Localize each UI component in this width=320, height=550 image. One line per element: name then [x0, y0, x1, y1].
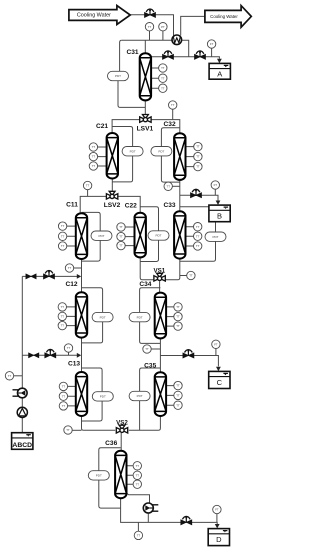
instrument PDT C22: [148, 231, 169, 240]
instrument TT #45: [133, 462, 141, 470]
svg-text:PDT: PDT: [158, 149, 164, 153]
valve tank D line: [181, 516, 192, 524]
wire PDT C36 bottom tap: [99, 480, 121, 508]
instrument TT #15: [164, 182, 172, 190]
feed preheater E3: [13, 388, 28, 398]
wire PDT C33 bottom tap: [180, 241, 216, 261]
instrument TT #49: [134, 531, 142, 539]
svg-text:PDT: PDT: [137, 394, 143, 398]
wire PDT C13 top tap: [82, 368, 103, 391]
instrument TT #9: [89, 152, 97, 160]
wire FT-A stem: [211, 48, 213, 57]
wire FT-B stem: [214, 189, 216, 195]
instrument TT #27: [187, 271, 195, 279]
svg-text:TT: TT: [196, 225, 200, 229]
wire arrow into tank B: [216, 201, 221, 205]
wire TT stem LSV1 line: [172, 109, 174, 119]
wire feed arrow into C13 stem: [77, 353, 81, 358]
svg-text:TT: TT: [61, 324, 65, 328]
wire LSV1 left to C21: [112, 120, 140, 134]
svg-text:TT: TT: [136, 482, 140, 486]
valve distillate 2: [195, 51, 206, 59]
instrument TT #30: [58, 321, 66, 329]
svg-text:C12: C12: [65, 281, 77, 288]
tank D: [208, 529, 229, 546]
wire FT-C stem: [215, 349, 217, 356]
instrument PT #2: [159, 23, 167, 31]
svg-text:TT: TT: [196, 165, 200, 169]
svg-text:C33: C33: [163, 202, 175, 209]
svg-text:TT: TT: [176, 305, 180, 309]
wire C33 bottoms to VS1: [165, 259, 180, 280]
tank C: [209, 371, 230, 388]
wire FT-D stem: [216, 514, 218, 523]
instrument TT #37: [5, 372, 13, 380]
wire C11 bottoms to C12: [81, 259, 83, 293]
column C13: [76, 372, 87, 416]
svg-text:VS2: VS2: [116, 420, 128, 427]
svg-text:PDT: PDT: [100, 315, 106, 319]
tank A: [209, 63, 230, 79]
svg-text:C34: C34: [139, 281, 151, 288]
tank B: [209, 205, 230, 222]
valve VS1: [154, 273, 165, 281]
svg-text:C13: C13: [68, 361, 80, 368]
instrument PDT C12: [92, 312, 113, 321]
wire PDT C12 top tap: [82, 288, 103, 313]
wire TT stem LSV2 line: [87, 190, 89, 197]
wire cooling water inlet: [130, 15, 173, 36]
valve VS2: [116, 425, 127, 433]
column C35: [155, 372, 166, 416]
wire TT stem top: [149, 31, 151, 40]
instrument TT #7: [169, 101, 177, 109]
svg-text:PDT: PDT: [115, 74, 121, 78]
wire LSV2 left to C11: [80, 196, 106, 213]
wire C36 bottoms line: [121, 498, 218, 524]
column C21: [107, 133, 118, 179]
valve LSV1: [140, 115, 151, 123]
svg-text:Cooling Water: Cooling Water: [77, 13, 111, 19]
instrument PDT C34: [129, 312, 150, 321]
svg-text:PDT: PDT: [100, 395, 106, 399]
instrument TT #20: [117, 223, 125, 231]
svg-text:TT: TT: [61, 244, 65, 248]
instrument PDT C32: [151, 147, 172, 156]
svg-text:TT: TT: [119, 244, 123, 248]
column C12: [76, 292, 87, 337]
wire C13 bottoms to VS2: [82, 416, 116, 430]
svg-text:TT: TT: [161, 76, 165, 80]
valve tank C line: [183, 350, 194, 358]
instrument TT #13: [194, 162, 202, 170]
svg-text:ABCD: ABCD: [12, 442, 32, 449]
wire LSV2 right to C22: [118, 196, 141, 213]
svg-text:TT: TT: [166, 184, 170, 188]
valve cooling water: [145, 9, 156, 17]
wire TT leaders C36: [127, 466, 134, 484]
svg-text:FT: FT: [210, 42, 214, 46]
svg-text:TT: TT: [176, 324, 180, 328]
svg-text:Cooling Water: Cooling Water: [210, 14, 238, 19]
instrument FT #3: [207, 40, 215, 48]
instrument TT #43: [174, 401, 182, 409]
svg-text:TT: TT: [119, 235, 123, 239]
wire TT leaders C31: [151, 68, 159, 88]
wire LSV1 right to C32: [151, 120, 180, 134]
wire PDT C34 top tap: [140, 288, 161, 313]
wire C36 to condenser E2: [126, 492, 150, 503]
instrument PDT C36: [88, 471, 109, 480]
wire pump suction from tank ABCD: [21, 418, 23, 433]
wire PDT C22 bottom tap: [140, 240, 158, 262]
column C31: [140, 53, 151, 100]
svg-text:TT: TT: [86, 184, 90, 188]
svg-text:TT: TT: [148, 25, 152, 29]
svg-text:TT: TT: [136, 464, 140, 468]
valve LSV2: [106, 191, 117, 199]
svg-text:TT: TT: [92, 145, 96, 149]
svg-text:C22: C22: [125, 202, 137, 209]
instrument TT #19: [58, 242, 66, 250]
wire condenser E2 outlet: [147, 513, 149, 522]
wire arrow into tank C: [216, 367, 221, 371]
svg-text:TT: TT: [92, 164, 96, 168]
wire VS2 to C36: [120, 433, 122, 451]
instrument TT #39: [59, 392, 67, 400]
wire PDT C31 top tap: [120, 40, 122, 71]
wire PDT C35 bottom tap: [139, 401, 141, 431]
wire TT leaders C13: [68, 386, 76, 406]
instrument PDT C21: [122, 147, 143, 156]
svg-text:PDT: PDT: [99, 234, 105, 238]
svg-text:TT: TT: [92, 155, 96, 159]
wire PT stem top: [162, 31, 164, 40]
wire TT leader C11 bottom: [74, 267, 82, 269]
check valve feed 2: [29, 353, 39, 358]
svg-text:A: A: [217, 69, 222, 78]
instrument TT #44: [64, 426, 72, 434]
check valve feed 1: [26, 274, 36, 279]
wire PDT C21 bottom tap: [112, 156, 132, 182]
instrument TT #5: [159, 74, 167, 82]
svg-text:TT: TT: [196, 244, 200, 248]
svg-text:TT: TT: [68, 266, 72, 270]
instrument TT #23: [194, 223, 202, 231]
svg-text:TT: TT: [176, 315, 180, 319]
wire VS1 to C34: [159, 281, 161, 293]
wire condenser E1 outlet: [182, 40, 189, 57]
svg-text:TT: TT: [137, 534, 141, 538]
instrument TT #41: [174, 381, 182, 389]
svg-text:TT: TT: [62, 404, 66, 408]
wire TT stem bottoms line: [137, 522, 139, 531]
svg-text:TT: TT: [176, 394, 180, 398]
instrument TT #11: [194, 142, 202, 150]
wire TT leaders C33: [186, 227, 194, 246]
svg-text:TT: TT: [171, 103, 175, 107]
wire arrow into tank A: [217, 59, 222, 63]
instrument FT #48: [213, 505, 221, 513]
instrument TT #22: [117, 241, 125, 249]
wire C34 bottoms to C35: [159, 338, 161, 372]
svg-text:C35: C35: [144, 363, 156, 370]
wire TT leaders C12: [67, 307, 76, 326]
wire C34 bottoms to tank C: [160, 356, 218, 367]
wire TT leaders C11: [67, 226, 76, 246]
svg-text:TT: TT: [196, 155, 200, 159]
wire C32 bottoms to tank B: [180, 195, 218, 200]
svg-text:TT: TT: [67, 346, 71, 350]
instrument TT #21: [117, 232, 125, 240]
wire TT leader C13 bottom: [72, 429, 81, 431]
column C34: [155, 293, 166, 339]
instrument TT #42: [174, 391, 182, 399]
instrument TT #25: [194, 242, 202, 250]
svg-text:PDT: PDT: [130, 149, 136, 153]
wire TT leader C34 bottom: [151, 348, 160, 350]
column C36: [115, 451, 126, 498]
column C22: [135, 213, 146, 258]
wire TT leaders C32: [186, 147, 194, 167]
svg-text:FT: FT: [215, 508, 219, 512]
wire C31 overhead to condenser E1: [122, 40, 172, 53]
wire PDT C33 top tap: [180, 207, 216, 232]
svg-text:C11: C11: [66, 202, 78, 209]
wire C32 bottoms to C33: [179, 180, 181, 212]
wire PDT C22 top tap: [140, 207, 158, 231]
instrument TT #18: [58, 232, 66, 240]
valve tank B line: [191, 189, 202, 197]
instrument FT #16: [211, 181, 219, 189]
svg-text:C21: C21: [96, 123, 108, 130]
instrument TT #6: [159, 84, 167, 92]
wire arrow into tank D: [215, 524, 220, 528]
column C33: [174, 211, 185, 258]
instrument TT #4: [159, 64, 167, 72]
instrument TT #12: [194, 152, 202, 160]
instrument TT #14: [83, 181, 91, 189]
svg-text:PDT: PDT: [156, 234, 162, 238]
tank ABCD: [12, 433, 33, 450]
instrument TT #47: [133, 480, 141, 488]
svg-text:TT: TT: [61, 305, 65, 309]
svg-text:TT: TT: [145, 347, 149, 351]
svg-text:TT: TT: [161, 86, 165, 90]
wire PDT C12 bottom tap: [82, 322, 103, 343]
wire feed line 1: [22, 275, 77, 277]
wire TT leaders C35: [166, 386, 174, 406]
svg-text:TT: TT: [61, 224, 65, 228]
instrument TT #32: [174, 312, 182, 320]
wire TT leaders C34: [166, 307, 174, 326]
instrument TT #35: [143, 345, 151, 353]
svg-text:C: C: [217, 378, 223, 387]
product cooler E2: [143, 503, 158, 513]
wire C12 bottoms to C13: [81, 338, 83, 373]
instrument TT #33: [174, 322, 182, 330]
instrument TT #40: [59, 402, 67, 410]
feed pump P1: [17, 407, 27, 417]
svg-text:TT: TT: [161, 66, 165, 70]
wire TT leader C32 bottom: [172, 185, 179, 187]
flag cooling water out: [205, 6, 251, 28]
wire feed arrow into C12 stem: [77, 274, 81, 279]
svg-text:PDT: PDT: [137, 315, 143, 319]
wire TT leaders C22: [125, 227, 134, 246]
wire PDT C32 bottom tap: [161, 156, 179, 182]
wire C22 bottoms to VS1: [140, 257, 154, 279]
svg-text:C36: C36: [105, 440, 117, 447]
instrument TT #31: [174, 303, 182, 311]
column C11: [76, 213, 87, 259]
wire TT stem feed line 2: [68, 352, 70, 355]
svg-text:TT: TT: [62, 385, 66, 389]
wire TT leaders C21: [98, 147, 107, 166]
svg-text:TT: TT: [62, 394, 66, 398]
svg-text:FT: FT: [214, 342, 218, 346]
wire C31 bottoms to LSV1: [144, 100, 146, 114]
wire PDT C11 bottom tap: [82, 240, 101, 261]
svg-text:TT: TT: [61, 234, 65, 238]
condenser E1: [172, 35, 182, 45]
wire TT leader feed riser: [14, 375, 23, 377]
svg-text:TT: TT: [189, 274, 193, 278]
instrument TT #26: [65, 264, 73, 272]
svg-text:TT: TT: [61, 315, 65, 319]
instrument TT #46: [133, 471, 141, 479]
svg-text:TT: TT: [176, 403, 180, 407]
instrument TT #8: [89, 143, 97, 151]
wire PDT C34 bottom tap: [140, 322, 161, 344]
wire PDT C11 top tap: [82, 212, 101, 231]
instrument PDT C13: [92, 392, 113, 401]
instrument TT #29: [58, 312, 66, 320]
svg-text:TT: TT: [196, 145, 200, 149]
wire PDT C13 bottom tap: [82, 402, 103, 422]
wire preheater to pump: [21, 398, 23, 408]
valve feed 1: [44, 271, 55, 279]
instrument TT #38: [59, 382, 67, 390]
wire feed line 2: [22, 354, 77, 356]
instrument PDT C35: [129, 391, 150, 400]
svg-text:D: D: [216, 535, 222, 544]
svg-text:C32: C32: [164, 121, 176, 128]
wire distillate line to tank A: [151, 57, 219, 59]
instrument TT #24: [194, 232, 202, 240]
svg-text:TT: TT: [8, 374, 12, 378]
svg-text:LSV1: LSV1: [137, 125, 154, 132]
svg-text:B: B: [217, 211, 222, 220]
instrument PDT C11: [91, 231, 112, 240]
svg-text:TT: TT: [119, 225, 123, 229]
svg-text:TT: TT: [66, 428, 70, 432]
svg-text:TT: TT: [196, 234, 200, 238]
svg-text:TT: TT: [136, 473, 140, 477]
wire feed riser: [21, 276, 23, 388]
wire PDT C31 bottom tap: [118, 81, 145, 108]
valve distillate 1: [163, 51, 174, 59]
wire cooling water outlet: [181, 16, 205, 35]
svg-text:PDT: PDT: [213, 235, 219, 239]
flag cooling water in: [69, 6, 130, 25]
svg-text:VS1: VS1: [153, 268, 165, 275]
instrument TT #34: [64, 344, 72, 352]
svg-text:PDT: PDT: [96, 474, 102, 478]
wire C35 bottoms to VS2: [129, 416, 161, 430]
instrument FT #36: [212, 340, 220, 348]
instrument TT #28: [58, 303, 66, 311]
wire TT leader C33 bottom: [180, 275, 187, 277]
wire PDT C36 top tap: [99, 448, 121, 471]
wire PDT C21 top tap: [112, 127, 132, 147]
svg-text:FT: FT: [214, 183, 218, 187]
instrument PDT C31: [108, 71, 129, 80]
instrument TT #1: [145, 23, 153, 31]
column C32: [174, 133, 185, 180]
instrument TT #17: [58, 222, 66, 230]
valve feed 2: [45, 349, 56, 357]
svg-text:TT: TT: [176, 384, 180, 388]
svg-text:PT: PT: [161, 25, 165, 29]
instrument TT #10: [89, 162, 97, 170]
svg-text:C31: C31: [126, 49, 138, 56]
wire PDT C32 top tap: [161, 128, 179, 147]
svg-text:LSV2: LSV2: [104, 202, 121, 209]
wire PDT C35 top tap: [140, 368, 161, 391]
wire C21 bottoms to LSV2: [111, 179, 113, 193]
instrument PDT C33: [205, 232, 226, 241]
